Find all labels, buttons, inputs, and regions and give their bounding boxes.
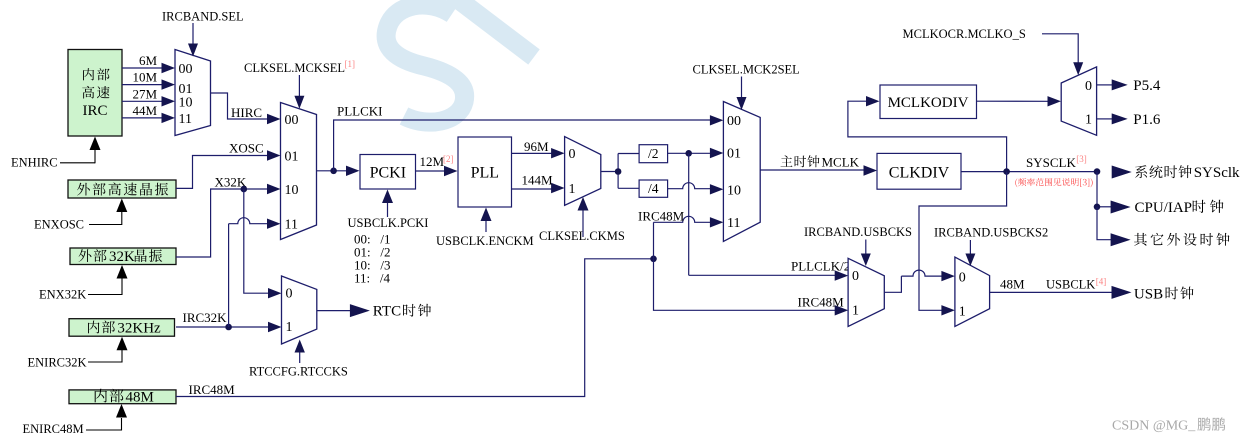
mux IRCBAND.SEL band select xyxy=(175,50,211,136)
label IRCBAND.USBCKS2 select signal xyxy=(934,226,1048,266)
svg-text:10: 10 xyxy=(179,96,193,111)
block CLKDIV divider xyxy=(877,153,961,189)
block external 32K crystal 外部32K晶振 xyxy=(70,248,176,265)
svg-text:IRC48M: IRC48M xyxy=(798,294,845,309)
wire CLKDIV output SYSCLK with superscript 3 and red note xyxy=(961,154,1097,172)
svg-text:6M: 6M xyxy=(139,53,158,68)
junction X32K branch node xyxy=(241,186,248,193)
wire mux6 output to mux7 input 0 with hop xyxy=(884,270,955,292)
svg-text:32K: 32K xyxy=(109,249,135,265)
svg-text:10M: 10M xyxy=(132,70,157,85)
svg-text:RTCCFG.RTCCKS: RTCCFG.RTCCKS xyxy=(249,365,348,379)
svg-text:48M: 48M xyxy=(126,389,154,405)
junction CKMS output node xyxy=(615,168,622,175)
svg-text:P5.4: P5.4 xyxy=(1133,78,1161,94)
svg-text:1: 1 xyxy=(852,303,859,318)
wire 12M PCKI output to PLL with superscript 2 xyxy=(416,154,458,176)
block PLL xyxy=(458,137,512,207)
label USBCLK.PCKI select with division table xyxy=(348,190,429,286)
svg-text:ENXOSC: ENXOSC xyxy=(34,218,84,232)
svg-text:CSDN @MG_: CSDN @MG_ xyxy=(1112,419,1196,434)
label IRCBAND.SEL select signal xyxy=(162,9,244,56)
junction IRC48M branch node xyxy=(650,255,657,262)
svg-text:SYSCLK: SYSCLK xyxy=(1026,155,1076,170)
mux CLKSEL.MCK2SEL master clock 2 select xyxy=(723,102,760,242)
label CLKSEL.MCK2SEL select signal xyxy=(693,63,800,110)
svg-text:ENHIRC: ENHIRC xyxy=(11,156,58,170)
svg-text:MCLKOCR.MCLKO_S: MCLKOCR.MCLKO_S xyxy=(903,27,1026,41)
block external high-speed crystal 外部高速晶振 xyxy=(68,180,176,198)
wire PLLCLK/2 down to USB mux6 input 0 xyxy=(689,153,851,280)
svg-text:/4: /4 xyxy=(648,181,659,196)
label MCLKOCR.MCLKO_S select signal xyxy=(903,27,1084,75)
svg-text:00: 00 xyxy=(285,113,299,128)
svg-text:CLKSEL.MCK2SEL: CLKSEL.MCK2SEL xyxy=(693,63,800,77)
label CLKSEL.CKMS select signal xyxy=(539,197,625,243)
svg-text:SYSclk: SYSclk xyxy=(1194,165,1240,181)
label USBCLK.ENCKM enable signal xyxy=(436,208,534,248)
svg-text:PLL: PLL xyxy=(471,164,499,181)
background watermark STC logo xyxy=(386,0,534,122)
wire MCLKODIV output to output mux8 xyxy=(976,96,1061,106)
svg-text:1: 1 xyxy=(1085,113,1092,128)
svg-text:PLLCKI: PLLCKI xyxy=(337,103,383,118)
wire SYSCLK branch down to USB mux7 input 1 xyxy=(919,172,1007,316)
svg-text:CPU/IAP: CPU/IAP xyxy=(1135,200,1193,216)
watermark CSDN attribution xyxy=(1112,417,1225,433)
net ENX32K enable input xyxy=(39,265,128,302)
wire IRC32K to RTC mux input 1 xyxy=(176,310,282,332)
svg-text:IRC32K: IRC32K xyxy=(183,310,228,325)
svg-text:MCLK: MCLK xyxy=(822,154,860,169)
wire X32K to mux2 input 10 xyxy=(176,174,281,257)
svg-text:P1.6: P1.6 xyxy=(1133,112,1161,128)
wire IRC32K branch up to mux2 input 11 with hop xyxy=(229,218,281,327)
svg-text:[1]: [1] xyxy=(345,59,356,69)
wire /2 output to mux5 input 01 xyxy=(668,148,724,158)
block MCLKODIV divider xyxy=(880,85,977,119)
wire 44M with label xyxy=(122,103,175,123)
svg-text:10: 10 xyxy=(727,183,741,198)
svg-text:0: 0 xyxy=(569,147,576,162)
wire RTC clock output RTC时钟 xyxy=(317,304,431,320)
net ENHIRC enable input xyxy=(11,137,101,170)
svg-text:IRCBAND.USBCKS2: IRCBAND.USBCKS2 xyxy=(934,226,1048,240)
junction PLLCLK/2 branch node xyxy=(685,150,692,157)
svg-text:0: 0 xyxy=(959,271,966,286)
wire system clock output 系统时钟SYSclk xyxy=(1112,165,1240,181)
svg-text:[3]: [3] xyxy=(1076,154,1087,164)
mux IRCBAND.USBCKS2 USB clock select 2 xyxy=(955,257,990,326)
label CLKSEL.MCKSEL select signal with superscript 1 xyxy=(244,59,355,109)
mux MCLKO output select demux xyxy=(1061,67,1096,135)
junction SYSCLK node A xyxy=(1003,168,1010,175)
svg-text:IRCBAND.USBCKS: IRCBAND.USBCKS xyxy=(804,225,912,239)
wire 27M with label xyxy=(122,86,175,106)
svg-text:USBCLK.PCKI: USBCLK.PCKI xyxy=(348,216,429,230)
svg-text:0: 0 xyxy=(852,269,859,284)
svg-text:144M: 144M xyxy=(522,172,554,187)
label red note frequency range see note 3 xyxy=(1015,178,1092,187)
svg-text:HIRC: HIRC xyxy=(231,105,262,120)
wire other peripheral clock output 其它外设时钟 xyxy=(1097,207,1230,246)
block divider /2 xyxy=(639,145,668,163)
svg-text:48M: 48M xyxy=(1000,277,1025,292)
junction IRC32K branch node xyxy=(225,324,232,331)
net ENIRC48M enable input xyxy=(23,404,128,436)
wire HIRC mux1 output to mux2 input 00 xyxy=(211,93,281,124)
wire IRC48M down to USB mux6 input 1 xyxy=(654,259,849,316)
svg-text:12M: 12M xyxy=(420,154,445,169)
svg-text:IRCBAND.SEL: IRCBAND.SEL xyxy=(162,9,244,23)
block internal 48M IRC 内部48M xyxy=(69,389,176,406)
svg-text:0: 0 xyxy=(286,286,293,301)
svg-text:1: 1 xyxy=(569,182,576,197)
svg-text:1: 1 xyxy=(959,304,966,319)
svg-text:11: 11 xyxy=(285,218,298,233)
junction SYSCLK node B xyxy=(1094,168,1101,175)
junction CPU/IAP node xyxy=(1094,204,1101,211)
wire IRC48M from internal 48M block xyxy=(176,259,654,397)
svg-text:11: /4: 11: /4 xyxy=(354,270,390,285)
svg-text:[4]: [4] xyxy=(1096,277,1107,287)
label IRCBAND.USBCKS select signal xyxy=(804,225,912,266)
mux RTCCFG.RTCCKS RTC clock select xyxy=(282,276,317,344)
svg-text:00: 00 xyxy=(727,114,741,129)
wire mux2 output to PCKI input xyxy=(317,166,360,176)
wire 10M with label xyxy=(122,70,175,90)
mux CLKSEL.CKMS PLL post-divider select xyxy=(565,137,601,206)
block internal 32KHz IRC 内部32KHz xyxy=(69,319,175,337)
svg-text:96M: 96M xyxy=(524,139,549,154)
svg-text:10: 10 xyxy=(285,183,299,198)
svg-text:IRC: IRC xyxy=(82,103,107,119)
wire P1.6 output pin xyxy=(1097,112,1161,128)
svg-text:RTC: RTC xyxy=(373,304,401,320)
label RTCCFG.RTCCKS select signal xyxy=(249,340,348,379)
block U1 internal high-speed IRC 内部高速IRC xyxy=(68,50,122,137)
svg-text:ENX32K: ENX32K xyxy=(39,288,86,302)
mux IRCBAND.USBCKS USB clock select 1 xyxy=(848,258,884,326)
svg-text:USB: USB xyxy=(1134,286,1163,302)
wire 6M with label xyxy=(122,53,175,73)
svg-text:44M: 44M xyxy=(132,103,157,118)
block divider /4 xyxy=(639,180,668,197)
svg-text:00: 00 xyxy=(179,62,193,77)
svg-text:11: 11 xyxy=(179,112,192,127)
wire MCLK mux5 output to CLKDIV 主时钟MCLK xyxy=(760,154,877,175)
svg-text:USBCLK: USBCLK xyxy=(1046,278,1095,292)
wire 144M PLL output to CKMS mux input 1 xyxy=(512,172,565,193)
junction PLLCKI branch node xyxy=(330,168,337,175)
svg-text:CLKSEL.MCKSEL: CLKSEL.MCKSEL xyxy=(244,61,345,75)
svg-text:IRC48M: IRC48M xyxy=(638,209,685,224)
svg-text:32KHz: 32KHz xyxy=(117,320,161,336)
svg-text:XOSC: XOSC xyxy=(229,141,264,156)
svg-text:01: 01 xyxy=(727,147,741,162)
svg-text:PCKI: PCKI xyxy=(370,164,406,181)
wire X32K branch down to RTC mux input 0 xyxy=(244,189,282,298)
wire P5.4 output pin xyxy=(1097,78,1161,94)
wire XOSC to mux2 input 01 xyxy=(176,141,281,189)
svg-text:11: 11 xyxy=(727,216,740,231)
svg-text:CLKDIV: CLKDIV xyxy=(889,164,950,181)
wire SYSCLK feedback up to MCLKODIV input xyxy=(848,96,1007,172)
svg-text:0: 0 xyxy=(1085,79,1092,94)
svg-text:PLLCLK/2: PLLCLK/2 xyxy=(791,258,850,273)
svg-text:IRC48M: IRC48M xyxy=(189,382,236,397)
wire CPU/IAP clock output CPU/IAP时钟 xyxy=(1097,172,1224,216)
svg-text:01: 01 xyxy=(285,149,299,164)
net ENXOSC enable input xyxy=(34,199,127,232)
mux CLKSEL.MCKSEL main clock select xyxy=(281,103,317,240)
wire CKMS output to divider branch xyxy=(601,154,639,189)
svg-text:USBCLK.ENCKM: USBCLK.ENCKM xyxy=(436,234,534,248)
svg-text:ENIRC48M: ENIRC48M xyxy=(23,422,84,436)
svg-text:/2: /2 xyxy=(648,146,659,161)
svg-text:CLKSEL.CKMS: CLKSEL.CKMS xyxy=(539,229,625,243)
block PCKI divider xyxy=(360,155,416,190)
svg-text:[2]: [2] xyxy=(443,154,454,164)
net ENIRC32K enable input xyxy=(28,337,128,370)
wire 96M PLL output to CKMS mux input 0 xyxy=(512,139,565,159)
svg-text:ENIRC32K: ENIRC32K xyxy=(28,356,87,370)
wire 48M USBCLK output to USB clock USB时钟 with superscript 4 xyxy=(990,277,1194,303)
svg-text:MCLKODIV: MCLKODIV xyxy=(888,95,969,111)
svg-text:27M: 27M xyxy=(132,86,157,101)
wire PLLCKI up and across to mux5 input 00 xyxy=(334,103,724,171)
wire /4 output to mux5 input 10 with hop xyxy=(668,183,724,195)
svg-text:1: 1 xyxy=(286,320,293,335)
wire IRC48M up to mux5 input 11 with hop xyxy=(638,209,723,259)
